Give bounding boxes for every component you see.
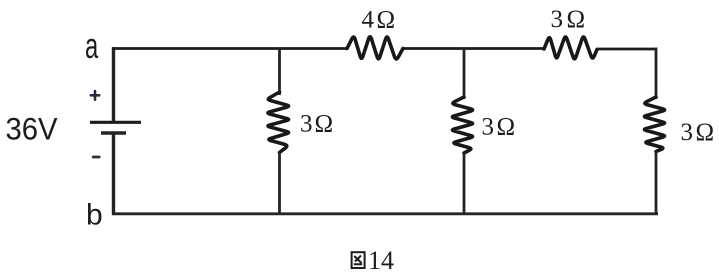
resistor 3ohm (branch 2) [452,97,472,153]
caption glyph tu (figure) [352,252,365,268]
wire: top between R4 and R3top [403,47,545,50]
svg-text:3: 3 [300,111,313,138]
branch 2 wire bottom [463,153,466,215]
wire: top R3top to right corner [597,48,657,51]
svg-text:Ω: Ω [377,7,396,34]
wire: left bottom (battery - to b) [112,135,115,215]
label 3 ohm (top) [551,6,586,33]
wire: bottom b to right [112,212,658,215]
plus sign [91,91,99,100]
minus sign [93,156,99,159]
label 3 ohm (branch 3) [681,119,715,146]
branch 3 wire top (right side) [655,48,658,100]
svg-text:3: 3 [681,119,694,146]
svg-text:3: 3 [482,114,495,141]
wire: top a to R4 [112,47,348,50]
svg-text:Ω: Ω [315,111,334,138]
svg-text:b: b [86,199,103,232]
svg-text:Ω: Ω [497,114,516,141]
label 3 ohm (branch 2) [482,114,516,141]
svg-text:36V: 36V [6,111,59,146]
branch 2 wire top [463,48,466,100]
svg-text:14: 14 [368,246,394,275]
node a [85,26,98,66]
label 4 ohm [362,7,396,34]
svg-text:Ω: Ω [696,119,715,146]
resistor 3ohm (branch 1) [268,92,289,153]
label 3 ohm (branch 1) [300,111,333,138]
battery V1 short plate [101,131,126,135]
svg-text:3: 3 [551,6,564,33]
svg-text:a: a [85,26,98,66]
caption text 14 [368,246,394,275]
source label 36V [6,111,59,146]
branch 1 wire top [278,48,281,96]
resistor 3ohm (branch 3) [644,97,664,152]
svg-text:Ω: Ω [567,6,586,33]
branch 3 wire bottom [655,151,658,214]
svg-text:4: 4 [362,7,375,34]
resistor 3ohm (top horizontal) [544,37,597,59]
node b [86,199,103,232]
branch 1 wire bottom [278,152,281,214]
wire: left top (a to battery +) [112,47,115,121]
resistor 4ohm (top horizontal) [347,37,403,59]
battery V1 long plate [90,121,141,124]
